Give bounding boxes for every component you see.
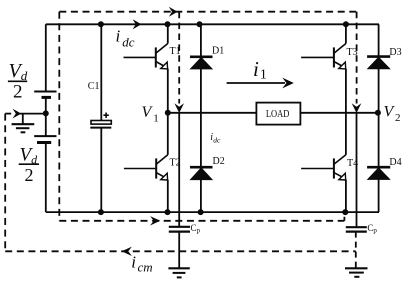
wire D3 top: [378, 24, 380, 56]
ground left mid: [12, 114, 35, 133]
transistor T2: [124, 155, 168, 180]
diode D4: [367, 167, 390, 179]
svg-text:D2: D2: [213, 156, 225, 167]
capacitor Cp left: [169, 227, 190, 232]
svg-text:2: 2: [395, 112, 401, 124]
wire left rail lower: [45, 143, 47, 213]
wire C1 lower: [100, 128, 102, 213]
svg-text:V: V: [142, 104, 154, 121]
label Vd/2 lower: [19, 144, 39, 185]
voltage source Vd/2 lower battery: [34, 136, 56, 142]
junction dot battery midpoint: [43, 110, 49, 116]
wire D1 top: [200, 24, 202, 57]
junction dot V2 right: [375, 110, 381, 116]
wire T4 collector from node: [345, 113, 347, 155]
svg-text:T4: T4: [347, 158, 358, 169]
wire T1 collector: [167, 24, 169, 43]
wire D4 top from node: [378, 113, 380, 167]
capacitor Cp right: [346, 227, 367, 231]
diode D3: [367, 57, 390, 69]
wire bottom dashed CM path 2: [5, 250, 356, 252]
svg-text:idc: idc: [116, 27, 135, 50]
junction dot bottom rail D2: [198, 209, 204, 215]
wire T3 emitter to V2: [345, 69, 347, 113]
junction dot top rail D1: [197, 21, 203, 27]
wire bottom dashed CM path 1: [59, 220, 344, 222]
arrow i_cm on bottom dashed path 2: [122, 247, 132, 256]
wire left rail upper: [45, 24, 47, 91]
wire dashed hop to T4 junction: [343, 213, 345, 221]
junction dot bottom rail C1: [98, 209, 104, 215]
wire T1 emitter to V1: [167, 69, 169, 113]
wire node line V1 to V2: [168, 112, 378, 114]
wire D2 bottom: [200, 180, 202, 213]
wire T2 emitter to bottom rail: [167, 180, 169, 212]
capacitor C1: [90, 121, 111, 128]
transistor T1: [124, 44, 168, 69]
wire right dashed to ground: [355, 232, 357, 268]
svg-text:LOAD: LOAD: [266, 109, 290, 120]
wire left outer dashed vertical: [4, 114, 6, 252]
C1 plus sign: [103, 113, 108, 118]
ground bottom left: [168, 268, 189, 277]
wire left rail mid: [45, 97, 47, 136]
svg-text:idc: idc: [210, 132, 221, 144]
svg-text:2: 2: [13, 82, 23, 103]
wire C1 upper: [100, 24, 102, 120]
wire right dashed CM vertical to V2: [356, 12, 358, 104]
svg-text:2: 2: [25, 165, 34, 185]
svg-text:T1: T1: [170, 46, 181, 57]
wire D3 bottom to node: [378, 69, 380, 113]
transistor T4: [301, 155, 346, 180]
wire D4 bottom: [378, 179, 380, 212]
wire V2 to Cp: [356, 113, 358, 227]
arrow into battery midpoint: [13, 109, 22, 119]
wire T3 collector: [345, 24, 347, 43]
wire T2 collector from V1: [167, 113, 169, 155]
wire T4 emitter to bottom rail: [345, 180, 347, 212]
junction dot V1: [165, 110, 171, 116]
wire left outer dashed corner: [5, 113, 12, 115]
junction dot bottom rail T4: [342, 209, 348, 215]
wire left dashed box vertical: [58, 12, 60, 221]
wire bottom rail: [46, 211, 379, 213]
svg-text:Cp: Cp: [191, 223, 201, 235]
svg-text:Cp: Cp: [367, 223, 377, 235]
arrow down to V2: [352, 103, 362, 113]
wire midpoint to ground arm: [20, 113, 46, 115]
svg-text:D3: D3: [389, 47, 401, 58]
arrow on bottom dashed path 1: [150, 216, 160, 225]
svg-text:T2: T2: [170, 158, 181, 169]
wire top dashed CM path: [59, 11, 356, 13]
wire mid dashed CM vertical to V1: [178, 12, 180, 104]
junction dot top rail T3: [343, 21, 349, 27]
LOAD box: [256, 103, 300, 125]
arrow down to V1: [174, 103, 184, 113]
svg-text:T3: T3: [347, 47, 358, 58]
svg-text:C1: C1: [88, 81, 100, 92]
transistor T3: [301, 44, 346, 69]
svg-text:D1: D1: [212, 46, 224, 57]
wire D2 top from node: [200, 113, 202, 167]
arrow on top dashed line: [169, 7, 178, 17]
diode D2: [190, 167, 213, 179]
wire left Cp to ground: [178, 232, 180, 268]
wire D1 bottom to V1: [200, 69, 202, 113]
svg-text:V: V: [384, 104, 396, 121]
svg-text:icm: icm: [131, 253, 152, 275]
svg-text:1: 1: [153, 112, 159, 124]
arrow i1 line: [227, 78, 294, 89]
junction dot top rail T1: [165, 21, 171, 27]
label Vd/2 upper: [8, 60, 28, 103]
arrow i_dc on top rail: [133, 19, 142, 29]
wire V1 to Cp: [178, 113, 180, 227]
diode D1: [190, 57, 213, 69]
svg-text:i1: i1: [253, 57, 267, 83]
ground bottom right: [345, 268, 368, 277]
svg-text:D4: D4: [389, 157, 401, 168]
junction dot bottom rail T2: [165, 209, 171, 215]
junction dot top rail C1: [98, 21, 104, 27]
svg-text:Vd: Vd: [20, 144, 39, 166]
voltage source Vd/2 upper battery: [34, 92, 56, 98]
wire top rail: [46, 23, 379, 25]
svg-text:Vd: Vd: [9, 60, 28, 83]
